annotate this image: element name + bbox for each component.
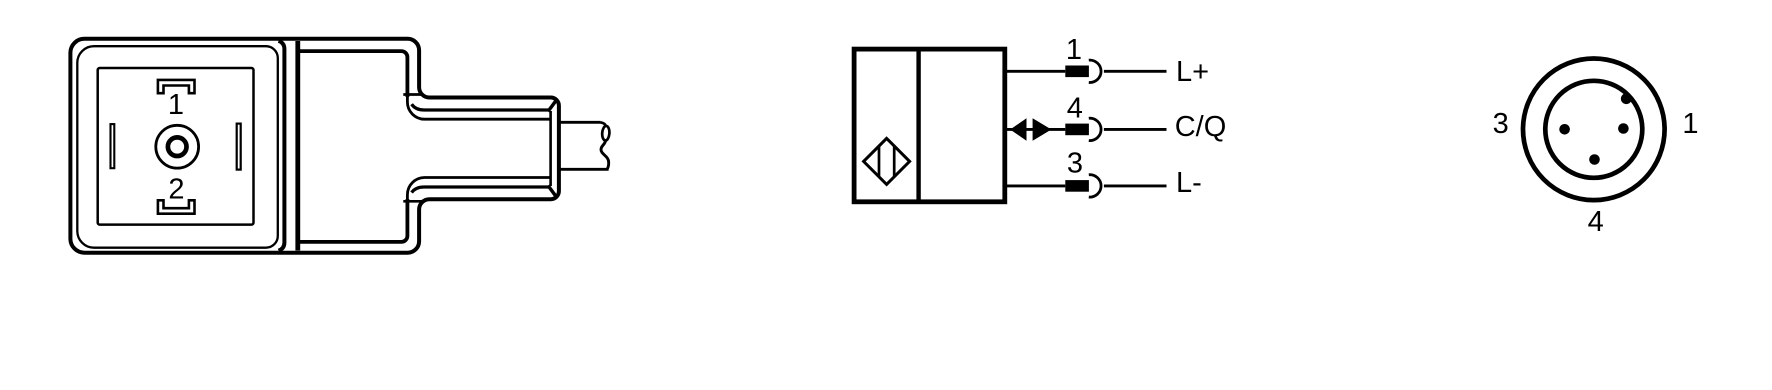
- svg-text:3: 3: [1067, 148, 1083, 180]
- cable bottom edge: [561, 168, 609, 171]
- cable break ellipse: [602, 126, 610, 141]
- M8 connector inner circle: [1545, 81, 1642, 178]
- neck root seam bottom: [403, 200, 421, 203]
- neck end wedge bottom: [548, 186, 556, 197]
- wire to C/Q: [1104, 128, 1167, 131]
- M8 connector outer circle: [1523, 59, 1665, 201]
- M8 pin 2 dot: [1621, 93, 1632, 104]
- left slot: [111, 124, 115, 168]
- pin 3 contact bar: [1065, 180, 1089, 192]
- svg-text:4: 4: [1067, 93, 1083, 125]
- center gland outer circle: [156, 125, 199, 168]
- wire pin 4: [1007, 128, 1065, 131]
- svg-text:L+: L+: [1176, 56, 1209, 88]
- neck root arc top: [407, 95, 550, 119]
- sensor box: [854, 49, 1005, 202]
- neck end wedge top: [548, 101, 556, 112]
- M8 pin 3 dot: [1559, 124, 1570, 135]
- bidirectional arrow left: [1010, 118, 1026, 141]
- pin 2 terminal bracket: [158, 200, 195, 213]
- M8 pin 1 dot: [1618, 123, 1629, 134]
- svg-text:3: 3: [1493, 108, 1509, 140]
- wire pin 1: [1007, 70, 1065, 73]
- valve plug outer silhouette: [70, 39, 559, 253]
- pin face plate: [98, 68, 254, 225]
- head right edge line: [279, 41, 285, 251]
- svg-text:1: 1: [168, 89, 184, 121]
- neck root arc bottom: [407, 178, 550, 202]
- right slot: [237, 124, 241, 170]
- cable break top curve: [601, 122, 606, 126]
- pin 1 terminal bracket: [158, 80, 195, 93]
- neck root seam top: [403, 93, 421, 96]
- neck end seam: [549, 111, 552, 186]
- sensor box divider: [916, 49, 920, 202]
- cable break s-curve: [601, 140, 609, 169]
- bidirectional arrow right: [1033, 118, 1052, 141]
- pin 4 socket arc: [1089, 118, 1101, 140]
- body inner contour bottom: [300, 199, 408, 242]
- M8 pin 4 dot: [1589, 154, 1600, 165]
- wire pin 3: [1007, 184, 1065, 187]
- svg-text:1: 1: [1066, 34, 1082, 66]
- svg-text:2: 2: [168, 173, 184, 205]
- neck rib line top middle: [412, 104, 549, 110]
- svg-text:L-: L-: [1176, 167, 1202, 199]
- cable top edge: [561, 121, 601, 124]
- sensor symbol chords: [879, 146, 894, 176]
- svg-text:4: 4: [1588, 206, 1604, 238]
- pin 1 contact bar: [1065, 66, 1089, 78]
- pin 3 socket arc: [1089, 175, 1101, 197]
- pin 1 socket arc: [1089, 60, 1101, 82]
- svg-text:1: 1: [1682, 108, 1698, 140]
- sensor symbol diamond: [864, 138, 910, 184]
- plug head inner contour: [77, 46, 277, 248]
- center gland inner ring: [168, 137, 187, 156]
- body left edge line: [295, 41, 300, 251]
- body inner contour top: [300, 51, 408, 97]
- svg-text:C/Q: C/Q: [1175, 111, 1227, 143]
- pin 4 contact bar: [1065, 124, 1089, 136]
- wire to L+: [1104, 70, 1167, 73]
- wire to L-: [1104, 184, 1167, 187]
- neck rib line bottom middle: [412, 187, 549, 193]
